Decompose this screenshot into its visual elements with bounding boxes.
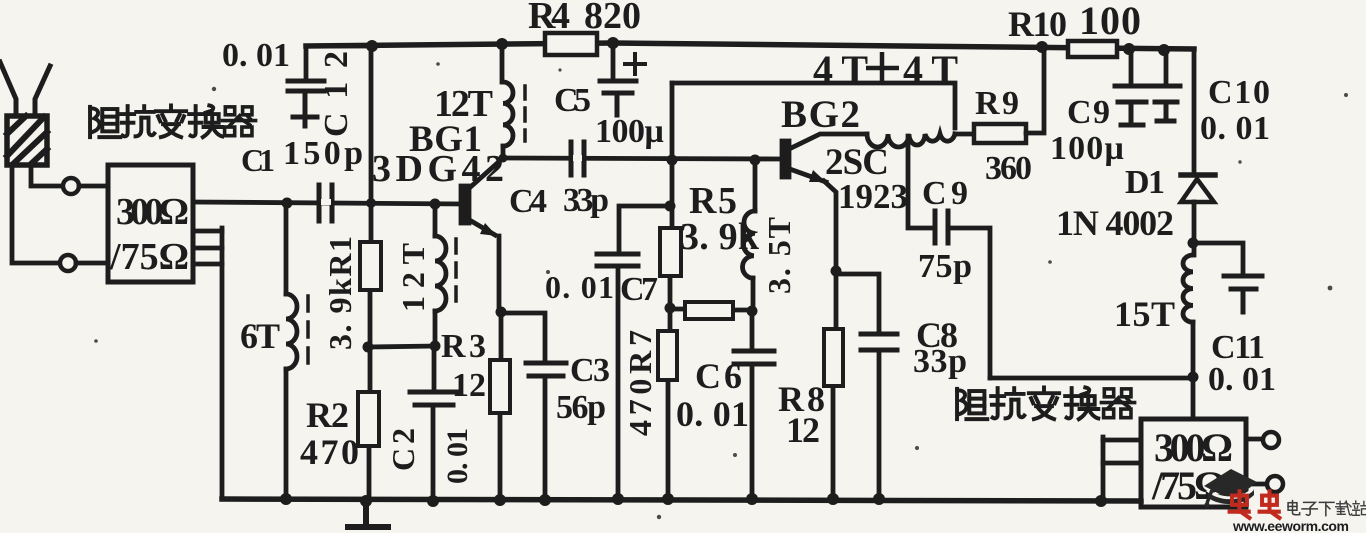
capacitor C11 lower stem	[1241, 291, 1246, 312]
svg-text:www.eeworm.com: www.eeworm.com	[1232, 518, 1351, 533]
node R5 R7 R6	[665, 303, 676, 314]
antenna mast lines	[0, 62, 16, 116]
watermark hat	[1204, 469, 1257, 508]
node W1/R1 junction	[366, 198, 376, 208]
inductor 6T core dashes	[306, 296, 310, 372]
capacitor C6 plates	[734, 351, 774, 364]
svg-text:R10: R10	[1008, 4, 1067, 44]
capacitor C5 lead from rail	[611, 43, 616, 79]
inductor 12T base core dashes	[454, 239, 458, 308]
resistor R4 body	[545, 33, 597, 55]
antenna lead upper	[31, 165, 62, 186]
resistor R8 body	[824, 329, 843, 386]
inductor 12T collector coil	[503, 82, 513, 146]
svg-text:4T: 4T	[903, 47, 958, 92]
svg-text:C2: C2	[385, 428, 421, 471]
svg-text:0. 01: 0. 01	[1200, 110, 1270, 147]
svg-text:C7: C7	[620, 271, 658, 308]
output terminal lower stub	[1246, 482, 1265, 487]
svg-text:0. 01: 0. 01	[1208, 361, 1276, 398]
capacitor C11 plates	[1224, 276, 1262, 289]
right box stub 2	[1103, 461, 1141, 466]
svg-text:12: 12	[786, 410, 820, 450]
node W3 3.5T	[750, 155, 761, 166]
svg-text:C9: C9	[1067, 94, 1110, 131]
capacitor C5 lower stem	[615, 95, 620, 115]
svg-text:C4: C4	[509, 183, 547, 220]
capacitor C4 plates	[571, 142, 584, 175]
node R5 top C7	[665, 201, 676, 212]
inductor 3.5T coil	[742, 211, 755, 278]
output terminal upper stub	[1246, 437, 1262, 442]
capacitor C3 plates	[526, 363, 566, 376]
wire coil tap down to C9	[908, 136, 931, 228]
capacitor C7 lower lead	[616, 268, 621, 499]
node ground C6	[746, 493, 758, 505]
antenna body (hatched)	[7, 116, 47, 165]
resistor R5 R7 line	[668, 83, 672, 499]
diode D1 triangle	[1181, 179, 1214, 202]
capacitor C8 plates	[861, 334, 897, 350]
node W3 x672	[667, 155, 678, 166]
scan specks	[94, 62, 1348, 519]
node ground R8	[827, 493, 839, 505]
svg-text:1N 4002: 1N 4002	[1056, 203, 1174, 243]
label 阻抗变换器 left	[90, 105, 256, 137]
svg-text:100µ: 100µ	[1050, 130, 1124, 167]
svg-text:C9: C9	[922, 175, 968, 212]
capacitor C1 plates	[319, 185, 332, 221]
inductor 3.5T wire	[753, 160, 755, 311]
capacitor C5 plates	[600, 81, 636, 93]
wire R9 to rail	[1026, 47, 1044, 133]
capacitor C8 lower lead	[877, 352, 882, 499]
svg-text:470R7: 470R7	[622, 330, 658, 436]
wire 15T down to box	[1191, 322, 1196, 419]
transistor BG1 base bar	[461, 186, 469, 223]
node R1R2 midpoint	[363, 342, 374, 353]
box output stub 3	[193, 262, 222, 267]
inductor 4T+4T coil	[867, 134, 955, 147]
transistor BG2 emitter lead	[787, 168, 826, 182]
right box stub 1	[1103, 438, 1141, 443]
svg-text:470: 470	[300, 432, 359, 472]
svg-text:R3: R3	[441, 328, 486, 365]
svg-text:150p: 150p	[283, 135, 363, 172]
svg-text:1923: 1923	[838, 177, 908, 216]
svg-text:BG2: BG2	[781, 93, 860, 136]
wire W1 box to BG1 base	[193, 202, 462, 204]
transistor BG1 collector lead	[466, 158, 503, 191]
node ground C2	[427, 495, 439, 507]
inductor 15T coil	[1183, 255, 1193, 322]
svg-text:C12: C12	[318, 51, 355, 137]
capacitor C6 lower lead	[750, 366, 755, 499]
svg-text:C6: C6	[695, 356, 742, 396]
svg-text:360: 360	[985, 150, 1032, 187]
watermark 虫虫 red	[1230, 491, 1280, 518]
output terminal upper	[1263, 432, 1279, 448]
capacitor C10 bottom bar	[1157, 104, 1174, 121]
wire BG2 emitter down	[824, 181, 836, 271]
node ground 6T	[280, 493, 292, 505]
node rail R10 left	[1123, 43, 1135, 55]
svg-text:D1: D1	[1125, 164, 1165, 201]
label 阻抗变换器 right	[957, 387, 1135, 419]
node rail/R4/C5	[607, 37, 619, 49]
capacitor C7 plates	[597, 254, 638, 266]
inductor 12T collector core dashes	[523, 86, 527, 141]
capacitor C9 100u plates	[1115, 86, 1149, 102]
wire BG1 emitter down	[497, 236, 502, 312]
box output stub 2	[193, 246, 222, 251]
svg-text:820: 820	[584, 0, 641, 37]
impedance converter box left	[108, 165, 193, 282]
node ground C3	[539, 494, 551, 506]
inductor 6T coil	[286, 294, 297, 369]
inductor 6T wire	[284, 203, 289, 499]
node ground R2	[360, 495, 372, 507]
capacitor C2 lead	[432, 346, 437, 391]
capacitor C3 lower lead	[543, 378, 548, 500]
svg-text:12T: 12T	[395, 243, 431, 312]
resistor R6 wire	[671, 309, 752, 310]
svg-text:12T: 12T	[434, 83, 493, 125]
capacitor C2 lower lead	[431, 407, 436, 501]
svg-text:33p: 33p	[913, 343, 967, 380]
resistor R3 wire	[500, 312, 501, 500]
wire C11 elbow	[1193, 243, 1243, 274]
svg-text:R4: R4	[528, 0, 570, 37]
svg-text:0. 01: 0. 01	[441, 428, 474, 484]
transistor BG1 emitter lead	[466, 218, 495, 235]
svg-text:100: 100	[1079, 0, 1141, 43]
node ground C7	[612, 493, 624, 505]
capacitor C12 plates	[288, 81, 324, 91]
wire emitter to C3	[501, 313, 545, 361]
node W1/6T junction	[282, 198, 293, 209]
transistor BG1 emitter arrow	[480, 223, 497, 236]
resistor R2 body	[358, 392, 379, 446]
resistor R10 body	[1068, 41, 1117, 57]
resistor R1 line (rail to W1 to midpoint)	[369, 45, 371, 501]
capacitor C5 plus sign	[625, 54, 645, 74]
node ground R7	[662, 493, 674, 505]
node W1/12T junction	[430, 199, 441, 210]
capacitor C9 100u lead	[1129, 49, 1134, 84]
node BG2 emitter junction	[831, 266, 842, 277]
capacitor C9 100u bottom bar	[1121, 104, 1143, 125]
resistor R6 body	[685, 302, 733, 319]
antenna lead lower	[12, 165, 59, 263]
wire terminal to box upper	[79, 184, 108, 189]
node collector W3	[499, 154, 508, 163]
svg-text:R9: R9	[975, 85, 1019, 122]
capacitor C10 lead	[1164, 50, 1169, 84]
inductor 12T base wire	[433, 204, 438, 346]
capacitor C10 plates	[1152, 86, 1180, 102]
svg-text:300Ω: 300Ω	[116, 191, 189, 233]
node rail/R1 junction	[366, 40, 378, 52]
wire terminal to box lower	[76, 261, 108, 266]
right box stub bar down to rail	[1101, 437, 1106, 501]
resistor R1 body	[360, 242, 381, 290]
svg-text:0. 01: 0. 01	[222, 37, 290, 74]
resistor R9 body	[974, 124, 1026, 143]
svg-text:R2: R2	[306, 395, 349, 435]
transistor BG2 emitter arrow	[809, 170, 826, 182]
resistor R3 body	[490, 360, 510, 413]
node D1 C11	[1188, 238, 1199, 249]
top supply rail	[306, 43, 1194, 49]
inductor 12T collector wire	[502, 44, 503, 158]
capacitor C6 lead	[750, 311, 755, 349]
node ground R3	[494, 494, 506, 506]
svg-text:75p: 75p	[918, 248, 972, 285]
svg-text:100µ: 100µ	[595, 113, 664, 150]
svg-text:15T: 15T	[1114, 294, 1175, 334]
node emitter R3 C3	[496, 307, 507, 318]
svg-text:6T: 6T	[240, 316, 280, 356]
transistor BG2 base bar	[782, 141, 789, 177]
watermark 电子下载站	[1288, 501, 1366, 516]
diode D1 cathode bar	[1181, 172, 1215, 178]
capacitor C1 gap mask	[324, 199, 328, 205]
wire emitter to C8	[836, 274, 879, 332]
node rail R9	[1036, 41, 1048, 53]
wire C7 elbow	[619, 206, 670, 252]
wire W3 collector to BG2 base	[503, 158, 782, 159]
wire D1 to 15T	[1192, 202, 1197, 255]
capacitor C9 75p plates	[935, 211, 948, 243]
capacitor C12 lead from rail	[306, 46, 372, 79]
resistor R5 body	[660, 228, 681, 276]
wire output y378	[990, 376, 1193, 381]
input terminal lower	[60, 255, 76, 271]
svg-text:4T: 4T	[813, 47, 868, 92]
output terminal lower	[1267, 476, 1283, 492]
resistor R7 body	[658, 331, 677, 380]
ground symbol	[348, 501, 388, 527]
capacitor C12 bottom lead and bar	[293, 91, 317, 126]
svg-text:C1: C1	[241, 142, 275, 178]
node ground right box	[1095, 495, 1107, 507]
wire coil right end to R9	[955, 132, 974, 137]
wire stubs down to ground rail	[220, 228, 225, 499]
inductor 12T base coil	[435, 236, 446, 311]
svg-text:C10: C10	[1208, 74, 1270, 111]
capacitor C4 gap mask	[576, 155, 579, 161]
wire midpoint R1R2 to 12T/C2	[368, 346, 435, 347]
node R6 C6 3.5T	[747, 306, 758, 317]
node rail C10	[1158, 44, 1170, 56]
svg-text:12: 12	[452, 367, 486, 404]
wire C9 right to output	[950, 228, 990, 378]
svg-text:3. 5T: 3. 5T	[761, 217, 797, 294]
bottom ground rail	[222, 499, 1141, 501]
resistor R8 wire	[833, 271, 836, 499]
capacitor C2 plates	[410, 392, 459, 405]
wire W4 feedback top	[672, 83, 955, 128]
input terminal upper	[63, 178, 79, 194]
svg-text:C5: C5	[554, 82, 591, 119]
box output stub 1	[193, 229, 222, 234]
svg-text:33p: 33p	[563, 182, 609, 219]
wire rail corner down to D1	[1192, 49, 1197, 175]
impedance converter box right	[1141, 419, 1246, 507]
svg-text:56p: 56p	[556, 389, 606, 426]
svg-text:C3: C3	[570, 352, 610, 389]
transistor BG2 collector lead	[787, 134, 867, 150]
svg-text:0. 01: 0. 01	[676, 394, 749, 434]
node ground C8	[873, 493, 885, 505]
node rail/12T collector	[496, 38, 508, 50]
svg-text:/75Ω: /75Ω	[109, 236, 189, 278]
node 15T output	[1188, 372, 1199, 383]
node 12T/C2 midpoint	[430, 341, 441, 352]
